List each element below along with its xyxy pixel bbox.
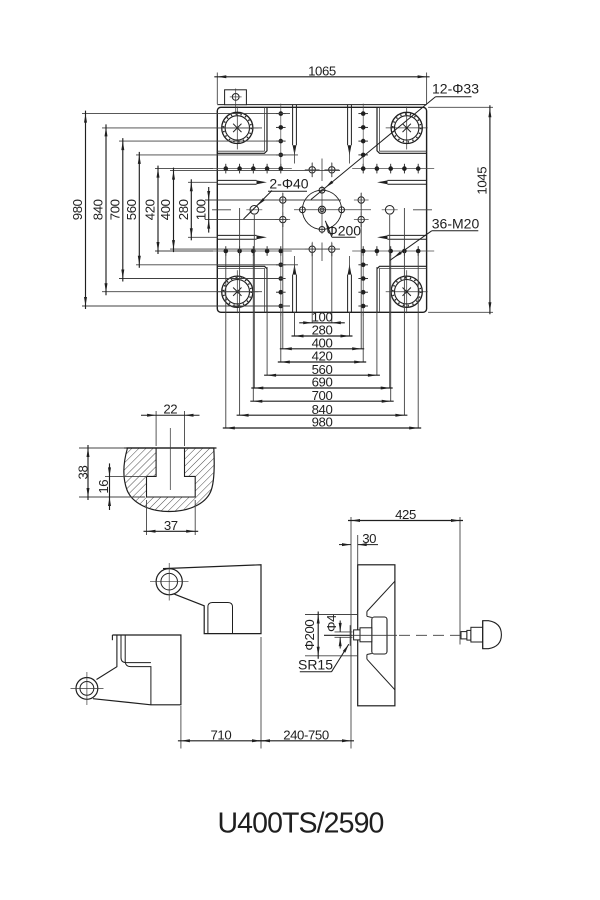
dim Φ4	[335, 631, 353, 633]
moving platen bracket upper	[163, 565, 261, 634]
T-slot horizontal right upper	[388, 179, 427, 181]
injection nozzle neck	[467, 630, 471, 640]
svg-text:840: 840	[91, 199, 106, 220]
dim 1065 top	[216, 73, 218, 105]
svg-text:980: 980	[70, 199, 85, 220]
injection nozzle head	[483, 621, 502, 649]
svg-text:Φ200: Φ200	[302, 620, 317, 651]
svg-text:425: 425	[395, 507, 416, 522]
nozzle centerline	[324, 634, 352, 636]
svg-text:420: 420	[143, 199, 158, 220]
hole bottom on Φ200	[319, 227, 325, 233]
T-slot horizontal left upper	[217, 179, 256, 181]
vertical centerlines through Φ33 pairs	[282, 193, 284, 227]
dim 425	[350, 517, 352, 749]
Φ200 bolt circle	[302, 190, 341, 229]
dim 30	[357, 535, 359, 565]
svg-text:SR15: SR15	[298, 657, 333, 673]
svg-text:16: 16	[96, 480, 111, 494]
T-slot vertical top pair	[292, 105, 294, 146]
upper bracket tie-bar boss	[156, 569, 182, 595]
plate centerline ticks	[212, 209, 231, 211]
sprue bush flange	[372, 617, 387, 654]
dim 16	[105, 475, 147, 477]
extension lines left dims	[82, 113, 290, 115]
sprue bush neck	[360, 628, 372, 642]
dim 22	[155, 411, 157, 446]
T-slot cavity (white)	[147, 448, 196, 497]
lifting tab boss at top	[225, 90, 247, 105]
dim 240-750	[258, 740, 354, 742]
hole right on Φ200	[339, 207, 345, 213]
hole 2-Φ40 left	[250, 206, 259, 215]
bottom dim stack	[299, 322, 345, 324]
svg-text:400: 400	[158, 199, 173, 220]
svg-text:100: 100	[193, 199, 208, 220]
dim Φ200 (locating ring)	[305, 614, 358, 616]
extension lines bottom dims	[311, 253, 313, 323]
svg-text:37: 37	[164, 518, 178, 533]
T-slot vertical bottom pair	[292, 275, 294, 313]
svg-text:560: 560	[124, 199, 139, 220]
platen outline	[217, 107, 426, 312]
corner boss top-right	[377, 107, 427, 153]
platen front view: top face edge line	[217, 104, 426, 106]
svg-text:240-750: 240-750	[283, 727, 329, 742]
sprue tip	[354, 630, 360, 640]
detail outer boundary	[124, 448, 214, 512]
svg-text:1065: 1065	[308, 63, 336, 78]
svg-text:22: 22	[163, 401, 177, 416]
corner boss bottom-right	[377, 266, 427, 312]
svg-text:1045: 1045	[475, 167, 490, 195]
tie bar hole top-left	[236, 106, 238, 149]
T-slot horizontal left lower	[217, 234, 256, 236]
corner boss top-left	[217, 107, 267, 153]
svg-text:700: 700	[107, 199, 122, 220]
tie bar hole top-right	[406, 106, 408, 149]
dim 710	[180, 706, 182, 749]
slot centerline	[169, 428, 171, 490]
mounting holes 12-Φ33: outer pairs	[280, 197, 286, 203]
tie bar hole bottom-right	[406, 270, 408, 313]
moving platen bracket lower	[93, 635, 181, 705]
tab hole	[232, 94, 239, 101]
svg-text:710: 710	[210, 727, 231, 742]
center hole	[318, 206, 325, 213]
injection nozzle barrel	[471, 627, 483, 642]
fixed platen block side view	[358, 565, 395, 706]
svg-text:30: 30	[362, 531, 376, 546]
detail top face	[124, 447, 217, 449]
dim 38	[79, 447, 126, 449]
lower bracket pocket	[121, 635, 151, 663]
left dim stack	[85, 111, 87, 309]
svg-text:280: 280	[176, 199, 191, 220]
svg-text:Φ4: Φ4	[324, 615, 339, 632]
SR15 sphere tangent tick	[349, 625, 351, 646]
M20 tapped hole rows (36-M20 pattern)	[210, 168, 292, 170]
lower bracket tie-bar boss	[76, 678, 98, 700]
svg-text:36-M20: 36-M20	[432, 216, 480, 232]
dim 37	[146, 500, 148, 535]
svg-text:980: 980	[312, 415, 333, 430]
injection nozzle tip	[461, 632, 467, 639]
svg-text:700: 700	[312, 388, 333, 403]
upper bracket pocket	[208, 603, 233, 634]
svg-text:U400TS/2590: U400TS/2590	[218, 808, 384, 840]
svg-text:38: 38	[75, 466, 90, 480]
hole left on Φ200	[300, 207, 306, 213]
mold locating funnel	[367, 581, 395, 611]
dim 1045 right	[428, 106, 493, 108]
svg-text:12-Φ33: 12-Φ33	[432, 81, 479, 97]
hole top on Φ200	[319, 187, 325, 193]
svg-text:2-Φ40: 2-Φ40	[269, 176, 308, 192]
hole 2-Φ40 right	[385, 206, 394, 215]
T-slot horizontal right lower	[388, 234, 427, 236]
corner boss bottom-left	[217, 266, 267, 312]
tie bar hole bottom-left	[236, 270, 238, 313]
